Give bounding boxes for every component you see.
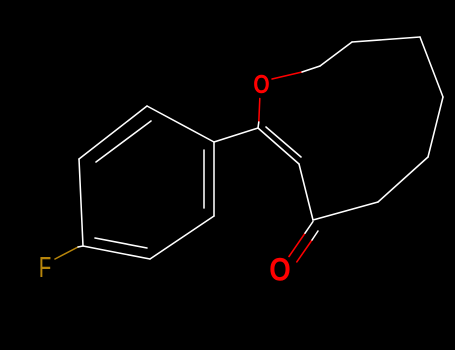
- wire: bond C8-C7: [420, 37, 443, 97]
- wire: phenyl inner double line bottom: [95, 238, 147, 248]
- wire: ketone C4=O main line red part: [289, 233, 305, 256]
- wire: phenyl edge P5-P6: [150, 216, 214, 259]
- wire: bond O1-C10 red part: [272, 72, 302, 79]
- wire: phenyl edge P3-P4: [79, 159, 83, 246]
- wire: phenyl edge P1-P2: [147, 106, 214, 142]
- wire: bond C5-C4: [313, 202, 378, 220]
- wire: bond F-P4 white part: [78, 246, 83, 247]
- wire: bond O1-C10 white part: [302, 66, 320, 72]
- wire: double bond C3=C2 second line: [266, 127, 301, 157]
- wire: bond O1-C2 white part: [257, 122, 260, 128]
- svg-text:O: O: [253, 69, 270, 99]
- wire: bond O1-C2 red part: [259, 99, 260, 123]
- wire: bond F-P4 gold part: [55, 247, 78, 259]
- wire: ketone C4=O second line white part: [312, 231, 318, 240]
- wire: bond C9-C8: [352, 37, 420, 42]
- svg-text:O: O: [269, 252, 291, 288]
- wire: phenyl inner double line top-left: [96, 121, 151, 162]
- wire: phenyl edge P2-P3: [79, 106, 147, 159]
- wire: bond C7-C6: [428, 97, 443, 157]
- wire: double bond C3=C2 main line: [258, 128, 299, 164]
- wire: phenyl edge P4-P5: [83, 246, 150, 259]
- wire: phenyl edge P6-P1: [213, 142, 215, 216]
- wire: bond C4-C3: [299, 164, 313, 220]
- wire: bond C6-C5: [378, 157, 428, 202]
- wire: ketone C4=O second line red part: [297, 240, 312, 262]
- wire: bond C10-C9: [320, 42, 352, 66]
- wire: bond C2-phenyl ipso: [214, 128, 258, 142]
- wire: ketone C4=O main line white part: [305, 222, 313, 234]
- svg-text:F: F: [39, 252, 52, 284]
- wire: phenyl inner double line right: [203, 150, 205, 208]
